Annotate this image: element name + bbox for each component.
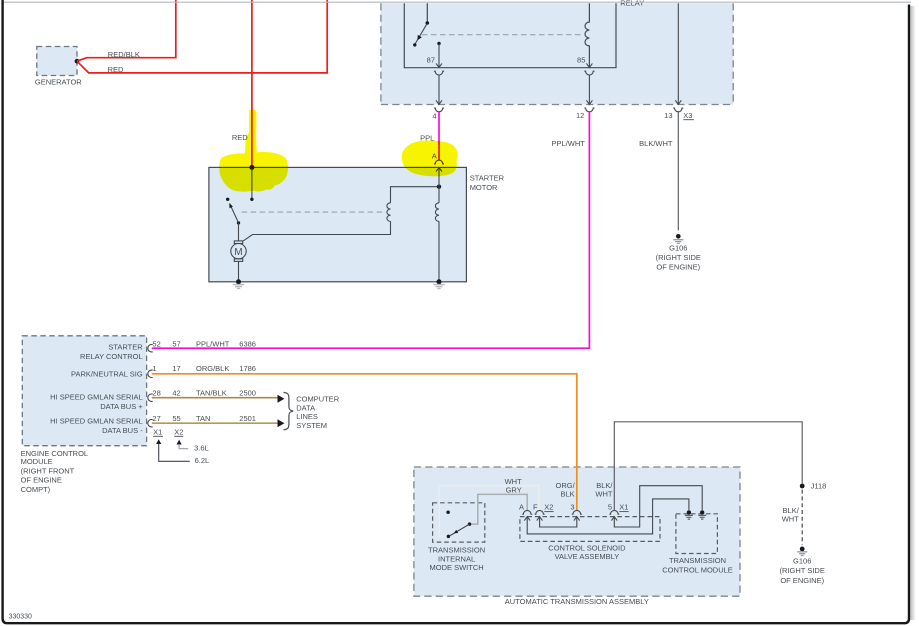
solenoid pin F cup (535, 510, 545, 514)
svg-text:G106: G106 (669, 243, 687, 252)
svg-text:3.6L: 3.6L (194, 444, 209, 453)
wire RED from generator (77, 0, 327, 73)
wire GRY mode switch to pin A (470, 494, 528, 524)
svg-text:TAN/BLK: TAN/BLK (196, 389, 227, 398)
svg-text:5: 5 (608, 503, 612, 512)
svg-text:J118: J118 (811, 482, 827, 491)
X2 engine variant callout 3.6L (177, 440, 182, 445)
starter motor ground dot (left) (236, 279, 241, 284)
module pin 12 connector cup (584, 108, 594, 112)
wire 85 cup to module pin 12 (586, 75, 592, 104)
svg-text:F: F (533, 503, 538, 512)
ECM pin 27 connector cup (148, 420, 153, 427)
svg-text:WHT: WHT (782, 514, 799, 523)
TAN/BLK arrow (278, 395, 285, 403)
svg-text:TAN: TAN (196, 414, 210, 423)
X1 engine variant callout 6.2L (156, 439, 161, 444)
ECM pin 28 connector cup (148, 394, 153, 401)
ground G106 (bottom right) symbol (797, 552, 807, 556)
solenoid switch blade (230, 204, 239, 223)
pin 87 connector cup (434, 71, 444, 75)
svg-text:AUTOMATIC TRANSMISSION ASSEMBL: AUTOMATIC TRANSMISSION ASSEMBLY (505, 597, 649, 606)
relay contact 87 dot (437, 42, 440, 45)
pin numbers row 3 (152, 389, 180, 398)
svg-text:1: 1 (152, 364, 156, 373)
pin numbers row 2 (152, 364, 180, 373)
wire PPL relay pin4 to starter (438, 112, 440, 145)
svg-text:COMPUTER: COMPUTER (296, 395, 340, 404)
TCM ground dot 2 (700, 510, 704, 514)
ground G106 (bottom right) dot (800, 547, 805, 552)
ground G106 (top right) (673, 234, 683, 243)
svg-text:DATA BUS +: DATA BUS + (100, 402, 143, 411)
svg-text:HI SPEED GMLAN SERIAL: HI SPEED GMLAN SERIAL (50, 417, 143, 426)
ground G106 labels (656, 243, 701, 271)
wire labels row 4 (196, 414, 256, 423)
computer data lines system label (296, 395, 340, 430)
svg-text:MODE SWITCH: MODE SWITCH (430, 563, 484, 572)
solenoid switch pivot dot (237, 221, 240, 224)
mode switch blade (450, 524, 470, 536)
svg-text:6386: 6386 (239, 340, 256, 349)
ground G106 (bottom right) labels (780, 556, 825, 584)
A terminal up arrow at box edge (436, 168, 442, 172)
wire RED battery feed to starter motor (251, 0, 253, 167)
svg-text:87: 87 (427, 55, 435, 64)
node B+ junction dot on starter box (249, 165, 254, 170)
computer data lines brace (284, 392, 294, 429)
relay switch pivot dot (426, 21, 430, 25)
svg-text:MOTOR: MOTOR (470, 183, 498, 192)
svg-text:3: 3 (570, 503, 574, 512)
solenoid switch contact dot (226, 198, 229, 201)
junction dot on A net (437, 185, 441, 189)
page right shadow (910, 6, 916, 620)
svg-text:1786: 1786 (239, 364, 256, 373)
svg-text:COMPT): COMPT) (21, 485, 51, 494)
svg-text:330330: 330330 (9, 613, 32, 620)
svg-text:STARTER: STARTER (108, 343, 143, 352)
svg-text:17: 17 (172, 364, 180, 373)
wire PPL/WHT relay pin12 to ECM (152, 112, 590, 348)
svg-text:2500: 2500 (239, 389, 256, 398)
TAN arrow (278, 419, 285, 427)
solenoid pin A arrow (524, 517, 530, 521)
pin 85 wire and arrow (586, 63, 592, 67)
ORG/BLK labels at pin 3 (556, 481, 576, 499)
svg-text:OF ENGINE): OF ENGINE) (780, 576, 824, 585)
svg-text:X1: X1 (619, 503, 628, 512)
mode switch blade arrowhead (454, 530, 458, 534)
ECM pin 52 connector cup (148, 344, 153, 351)
starter motor label (470, 173, 505, 191)
X3 feed wire in module (675, 3, 681, 104)
relay inner box U1 (404, 3, 616, 68)
wire ORG/BLK park/neutral signal (152, 373, 577, 375)
A terminal connector cup (434, 160, 444, 164)
starter motor ground symbol (left) (233, 285, 245, 289)
svg-text:DATA: DATA (296, 403, 315, 412)
svg-text:(RIGHT FRONT: (RIGHT FRONT (21, 466, 75, 475)
svg-text:6.2L: 6.2L (195, 456, 210, 465)
svg-text:(RIGHT SIDE: (RIGHT SIDE (656, 253, 701, 262)
wire motor feed to pull-in coil (243, 221, 390, 241)
splice J118 dot (800, 484, 805, 489)
svg-text:DATA BUS -: DATA BUS - (102, 426, 143, 435)
solenoid pin 5 arrow (611, 517, 617, 521)
svg-text:55: 55 (172, 414, 180, 423)
pin 85 connector cup (584, 71, 594, 75)
relay switch blade arrowhead (417, 35, 421, 40)
pin 87 wire and arrow (436, 44, 442, 68)
wire pull-in coil to A terminal net (391, 187, 440, 203)
solenoid switch blade arrowhead (229, 203, 233, 208)
solenoid pin 5 cup (609, 510, 619, 514)
svg-text:42: 42 (172, 389, 180, 398)
svg-text:WHT: WHT (595, 490, 612, 499)
solenoid pin F arrow (537, 517, 543, 521)
svg-text:85: 85 (577, 55, 585, 64)
svg-text:OF ENGINE: OF ENGINE (21, 476, 62, 485)
generator box (37, 47, 77, 76)
svg-text:INTERNAL: INTERNAL (438, 554, 475, 563)
wire TAN/BLK data bus + (152, 397, 278, 399)
svg-text:VALVE ASSEMBLY: VALVE ASSEMBLY (555, 552, 620, 561)
svg-text:4: 4 (432, 111, 436, 120)
control solenoid valve assembly labels (548, 543, 626, 561)
ECM module name labels (21, 449, 89, 494)
svg-text:27: 27 (152, 414, 160, 423)
starter motor M1 symbol (231, 223, 246, 282)
wire BLK/WHT solenoid pin5 to J118 (614, 422, 802, 511)
wire PPL highlighted segment (appears red under marker) (438, 145, 440, 160)
mode switch labels (428, 545, 485, 572)
automatic transmission assembly box (414, 467, 740, 596)
svg-text:RELAY CONTROL: RELAY CONTROL (80, 352, 143, 361)
svg-text:ORG/: ORG/ (556, 481, 576, 490)
svg-text:X2: X2 (544, 503, 553, 512)
solenoid internal wire pin A to TCM ground (527, 499, 689, 534)
svg-text:GRY: GRY (506, 486, 522, 495)
BLK/WHT labels at pin 5 (595, 481, 613, 499)
TCM ground symbol 1 (685, 515, 693, 519)
pin numbers row 1 (152, 340, 180, 349)
hold-in winding coil (435, 203, 439, 222)
wire RED/BLK from generator (77, 0, 176, 61)
svg-text:HI SPEED GMLAN SERIAL: HI SPEED GMLAN SERIAL (50, 393, 143, 402)
relay switch blade (415, 25, 426, 44)
starter motor box (209, 167, 467, 281)
svg-text:PPL/WHT: PPL/WHT (196, 340, 230, 349)
svg-text:PPL/WHT: PPL/WHT (552, 139, 586, 148)
svg-text:CONTROL MODULE: CONTROL MODULE (662, 566, 733, 575)
svg-text:LINES: LINES (296, 412, 318, 421)
dashed BLK/WHT wire J118 to G106 (801, 490, 803, 545)
svg-text:SYSTEM: SYSTEM (296, 421, 327, 430)
svg-text:RED: RED (108, 65, 124, 74)
svg-text:MODULE: MODULE (21, 457, 53, 466)
svg-text:RED/BLK: RED/BLK (108, 50, 140, 59)
svg-text:STARTER: STARTER (470, 173, 505, 182)
starter mechanical dashed link (242, 211, 386, 213)
module pin X3 connector cup (673, 108, 683, 112)
starter solenoid ground dot (right) (437, 279, 442, 284)
yellow highlighter blob over battery junction (219, 110, 288, 192)
relay switch feed wire (426, 3, 428, 21)
svg-text:TRANSMISSION: TRANSMISSION (428, 545, 485, 554)
wire TAN data bus - (152, 422, 278, 424)
svg-text:X2: X2 (174, 427, 183, 436)
transmission control module box (676, 514, 718, 554)
svg-text:52: 52 (152, 340, 160, 349)
svg-text:GENERATOR: GENERATOR (35, 77, 82, 86)
svg-text:28: 28 (152, 389, 160, 398)
module pin 4 connector cup (434, 108, 444, 112)
wire BLK/WHT relay X3 to G106 (677, 112, 679, 230)
ECM pin 1 connector cup (148, 370, 153, 377)
starter relay module box (fuse block) fill (381, 3, 733, 104)
transmission internal mode switch box (433, 503, 485, 542)
engine control module box (22, 336, 146, 446)
wire 87 cup to module pin 4 (436, 75, 442, 104)
solenoid pin A cup (522, 510, 532, 514)
relay mechanical dashed link (422, 34, 584, 36)
solenoid pin 3 cup (572, 510, 582, 514)
wire WHT mode switch to pin F (439, 486, 539, 537)
relay switch blade end dot (413, 43, 416, 46)
svg-text:RELAY: RELAY (620, 0, 644, 7)
pull-in winding coil (387, 203, 391, 222)
svg-text:13: 13 (664, 111, 672, 120)
starter relay module dashed border (381, 3, 733, 104)
starter solenoid ground symbol (right) (433, 285, 445, 289)
mode switch contact dot (lower) (447, 535, 451, 539)
solenoid internal jumper pin F to pin 3 (540, 517, 577, 527)
BLK/WHT labels at J118 (782, 506, 800, 524)
page top border line (4, 1, 911, 3)
generator output junction dot (75, 59, 80, 64)
A terminal stem and hold-in winding wire (438, 167, 440, 281)
svg-text:M: M (234, 247, 242, 258)
control solenoid valve assembly box (520, 517, 660, 542)
svg-text:BLK: BLK (561, 490, 575, 499)
wire labels row 1 (196, 340, 256, 349)
yellow highlighter blob over starter A terminal (402, 141, 458, 177)
svg-text:X1: X1 (153, 427, 162, 436)
svg-text:2501: 2501 (239, 414, 256, 423)
svg-text:A: A (519, 503, 524, 512)
svg-text:57: 57 (172, 340, 180, 349)
mode switch pivot dot (468, 522, 472, 526)
wire labels row 3 (196, 389, 256, 398)
svg-text:(RIGHT SIDE: (RIGHT SIDE (780, 566, 825, 575)
svg-text:BLK/: BLK/ (596, 481, 613, 490)
solenoid internal wire pin 5 to TCM ground (614, 486, 702, 527)
TCM ground dot 1 (687, 510, 691, 514)
mode switch contact dot (upper) (446, 510, 450, 514)
svg-text:TRANSMISSION: TRANSMISSION (669, 556, 726, 565)
relay coil (585, 3, 589, 63)
TCM labels (662, 556, 733, 574)
svg-text:G106: G106 (793, 556, 811, 565)
svg-text:PARK/NEUTRAL SIG: PARK/NEUTRAL SIG (71, 369, 143, 378)
pin numbers row 4 (152, 414, 180, 423)
svg-text:12: 12 (576, 111, 584, 120)
battery feed stub into solenoid contact (251, 167, 253, 199)
wire ORG/BLK vertical into solenoid pin 3 (576, 373, 578, 511)
svg-text:X3: X3 (683, 111, 692, 120)
svg-text:CONTROL SOLENOID: CONTROL SOLENOID (548, 543, 626, 552)
svg-text:ORG/BLK: ORG/BLK (196, 364, 229, 373)
TCM ground symbol 2 (698, 515, 706, 519)
wire labels row 2 (196, 364, 256, 373)
ECM pin labels (50, 343, 143, 435)
solenoid pin 3 arrow (574, 517, 580, 521)
svg-text:OF ENGINE): OF ENGINE) (656, 263, 700, 272)
svg-text:BLK/WHT: BLK/WHT (639, 139, 673, 148)
